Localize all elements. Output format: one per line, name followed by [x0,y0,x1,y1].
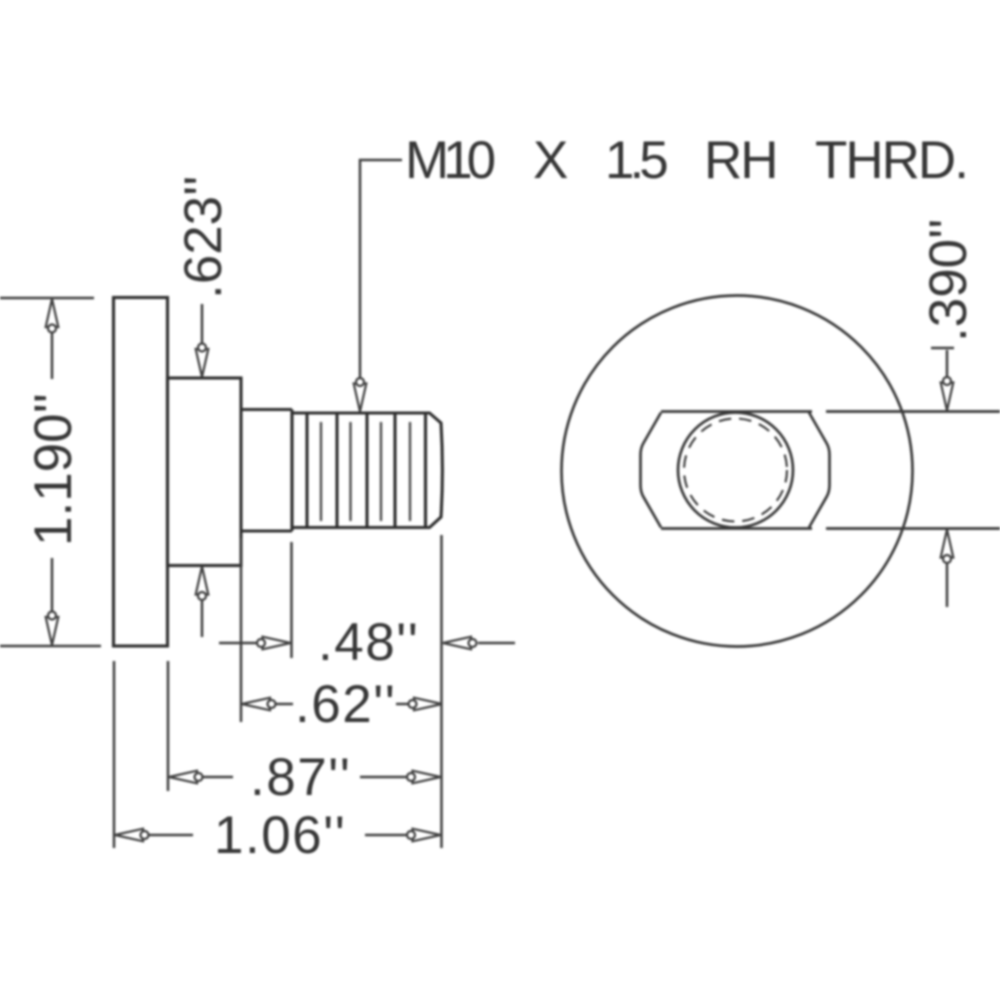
svg-text:.87'': .87'' [250,748,351,807]
svg-text:M10: M10 [405,131,495,190]
svg-text:.62'': .62'' [295,675,396,734]
svg-text:.48'': .48'' [318,613,419,672]
svg-text:.623'': .623'' [174,176,233,299]
svg-text:THRD.: THRD. [815,131,967,190]
svg-text:1.06'': 1.06'' [214,806,346,865]
svg-text:1.190'': 1.190'' [24,393,83,546]
svg-text:.390'': .390'' [919,219,978,342]
svg-text:X: X [533,131,568,190]
svg-text:RH: RH [704,131,777,190]
svg-text:1.5: 1.5 [605,131,667,190]
